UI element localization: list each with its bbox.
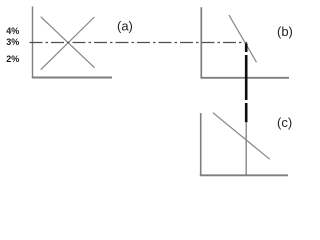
svg-text:2%: 2% — [6, 54, 19, 64]
graph (b) y-axis — [200, 7, 202, 78]
graph (a) ascending line — [41, 17, 95, 70]
svg-text:3%: 3% — [6, 37, 19, 47]
dash-dot 3% level line — [30, 42, 248, 44]
graph (a) descending line — [41, 17, 95, 68]
graph (c) x-axis — [200, 174, 288, 176]
graph (a) x-axis — [32, 77, 112, 79]
graph (b) descending line — [229, 15, 257, 62]
graph (b) x-axis — [201, 77, 290, 79]
svg-text:(a): (a) — [117, 19, 133, 34]
svg-text:4%: 4% — [6, 26, 19, 36]
svg-text:(b): (b) — [277, 24, 293, 39]
graph (c) descending line — [213, 113, 270, 160]
thin vertical continuation into graph (c) — [245, 122, 247, 176]
svg-text:(c): (c) — [277, 115, 292, 130]
graph (c) y-axis — [200, 113, 202, 176]
thick dashed drop line from (b) to (c) — [245, 43, 248, 122]
graph (a) y-axis — [32, 7, 34, 79]
